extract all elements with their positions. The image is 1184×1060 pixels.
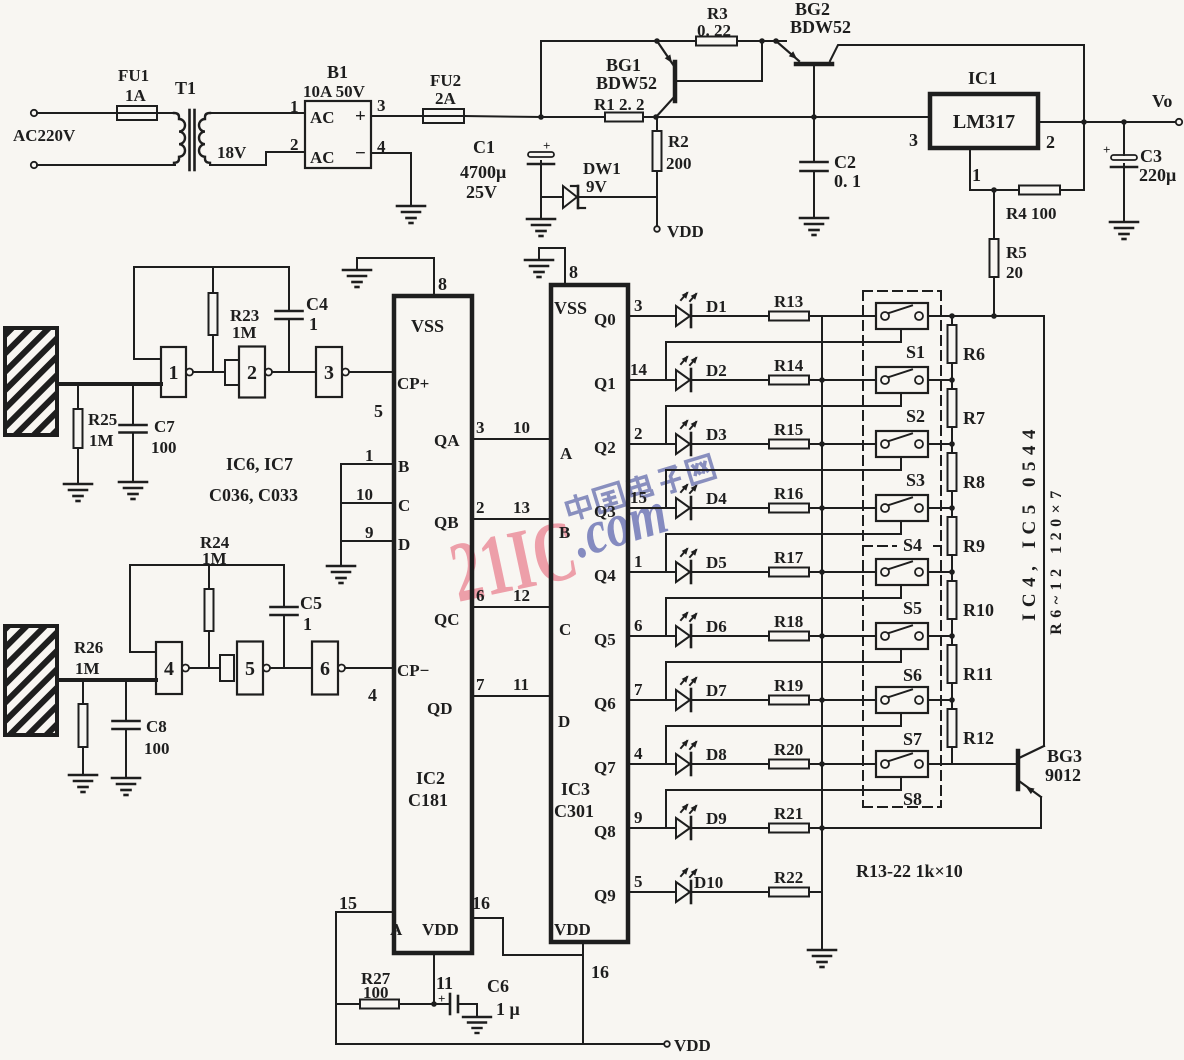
svg-text:R4 100: R4 100 — [1006, 204, 1057, 223]
transformer T1 core — [188, 110, 191, 170]
ground at R26 — [69, 774, 97, 777]
svg-text:R20: R20 — [774, 740, 803, 759]
capacitor C6 — [449, 994, 452, 1014]
LED D2 — [676, 370, 690, 390]
svg-text:Vo: Vo — [1152, 91, 1172, 111]
svg-text:1M: 1M — [89, 431, 114, 450]
wire gate1 to gate2 — [193, 371, 225, 373]
svg-text:1: 1 — [365, 446, 374, 465]
svg-text:R11: R11 — [963, 664, 993, 684]
svg-text:IC3: IC3 — [561, 779, 590, 799]
resistor R17 — [769, 568, 809, 577]
AC input terminal 1 — [31, 110, 37, 116]
resistor R19 — [769, 696, 809, 705]
svg-text:VSS: VSS — [411, 316, 444, 336]
svg-text:0. 1: 0. 1 — [834, 171, 861, 191]
svg-text:25V: 25V — [466, 182, 497, 202]
wire gate5 to gate6 — [270, 667, 312, 669]
dashed outline IC4/IC5 — [863, 291, 941, 807]
wire gate4 to gate5 — [189, 667, 220, 669]
svg-text:R14: R14 — [774, 356, 804, 375]
svg-text:D2: D2 — [706, 361, 727, 380]
inverter gate 1 — [161, 347, 186, 397]
wire R19 to S7 — [809, 699, 876, 701]
ground at IC2 BCD — [327, 565, 355, 568]
svg-text:1: 1 — [972, 165, 981, 185]
resistor R6 — [948, 325, 957, 363]
svg-text:C1: C1 — [473, 137, 495, 157]
node chain row 7 — [949, 697, 955, 703]
wire Q3 to LED D4 — [628, 507, 676, 509]
wire C1 node up to top rail — [540, 41, 542, 117]
svg-text:R22: R22 — [774, 868, 803, 887]
svg-text:Q2: Q2 — [594, 438, 616, 457]
wire FU2 to C1 node — [464, 116, 541, 117]
analog switch S4 — [876, 495, 928, 521]
wire IC2 pin11 — [433, 953, 435, 1004]
resistor R8 — [948, 453, 957, 491]
wire S1 control — [666, 329, 901, 380]
svg-text:5: 5 — [245, 658, 255, 680]
svg-text:C6: C6 — [487, 976, 509, 996]
wire D7 to R19 — [691, 699, 769, 701]
wire R15 to S3 — [809, 443, 876, 445]
wire IC2 C pin — [341, 502, 394, 504]
ground at R25 — [64, 483, 92, 486]
resistor R11 — [948, 645, 957, 683]
svg-text:S4: S4 — [903, 535, 922, 555]
LED D6 — [676, 626, 690, 646]
wire main line C1 to R1 — [541, 116, 605, 118]
node R27-C6 — [431, 1001, 437, 1007]
wire R16 to S4 — [809, 507, 876, 509]
analog switch S5 — [876, 559, 928, 585]
wire D10 to R22 — [691, 891, 769, 893]
svg-text:220μ: 220μ — [1139, 165, 1176, 185]
node BG2 emitter — [773, 38, 779, 44]
node at C1 top — [538, 114, 544, 120]
wire R22 to bus — [809, 891, 822, 893]
svg-text:11: 11 — [436, 973, 453, 993]
wire R2 top — [656, 117, 658, 131]
analog switch S2 — [876, 367, 928, 393]
svg-text:QA: QA — [434, 431, 460, 450]
wire gate6 to IC2 CP- — [345, 667, 394, 669]
node chain row 5 — [949, 569, 955, 575]
svg-text:2: 2 — [247, 362, 257, 384]
svg-text:R10: R10 — [963, 600, 994, 620]
wire S2 control — [666, 393, 901, 444]
svg-text:D1: D1 — [706, 297, 727, 316]
svg-text:QD: QD — [427, 699, 453, 718]
svg-text:R9: R9 — [963, 536, 985, 556]
fuse FU2 — [423, 109, 464, 123]
svg-text:QB: QB — [434, 513, 459, 532]
svg-text:1: 1 — [290, 97, 299, 116]
terminal VDD bottom — [664, 1041, 670, 1047]
svg-text:BG1: BG1 — [606, 55, 641, 75]
svg-text:VSS: VSS — [554, 298, 587, 318]
wire R18 to S6 — [809, 635, 876, 637]
svg-text:IC1: IC1 — [968, 68, 997, 88]
wire R3 to BG2 — [737, 40, 786, 42]
ground at IC2 pin8 — [343, 269, 371, 272]
svg-text:2: 2 — [634, 424, 643, 443]
svg-text:VDD: VDD — [422, 920, 459, 939]
resistor R3 — [696, 37, 737, 46]
fuse FU1 — [117, 106, 157, 120]
svg-text:7: 7 — [634, 680, 643, 699]
LED D10 — [676, 882, 690, 902]
counter IC3 — [551, 285, 628, 942]
inverter gate 2 — [225, 360, 239, 385]
analog switch S1 — [876, 303, 928, 329]
svg-text:A: A — [560, 444, 573, 463]
ground at C7 — [119, 481, 147, 484]
resistor R14 — [769, 376, 809, 385]
analog switch S8 — [876, 751, 928, 777]
wire D4 to R16 — [691, 507, 769, 509]
svg-text:VDD: VDD — [674, 1036, 711, 1055]
wire R5 bottom — [993, 277, 995, 316]
svg-text:R1 2. 2: R1 2. 2 — [594, 95, 645, 114]
inverter gate 6 — [312, 642, 338, 695]
LED D8 — [676, 754, 690, 774]
svg-text:D: D — [558, 712, 570, 731]
wire AC L to FU1 — [37, 112, 117, 114]
resistor R23 — [212, 267, 214, 293]
wire IC2 QB to IC3 — [472, 518, 551, 520]
svg-text:2A: 2A — [435, 89, 457, 108]
wire IC1 output line — [1038, 121, 1176, 123]
node bus row 2 — [819, 377, 825, 383]
svg-text:IC4, IC5 0544: IC4, IC5 0544 — [1019, 423, 1040, 621]
svg-text:10: 10 — [356, 485, 373, 504]
svg-text:BDW52: BDW52 — [596, 73, 657, 93]
svg-text:1M: 1M — [75, 659, 100, 678]
svg-text:AC: AC — [310, 108, 335, 127]
wire Q7 to LED D8 — [628, 763, 676, 765]
svg-text:R15: R15 — [774, 420, 803, 439]
svg-text:1A: 1A — [125, 86, 147, 105]
svg-text:14: 14 — [630, 360, 648, 379]
svg-text:C3: C3 — [1140, 146, 1162, 166]
svg-text:9: 9 — [634, 808, 643, 827]
node bus row 8 — [819, 761, 825, 767]
wire Q8 to LED D9 — [628, 827, 676, 829]
svg-text:IC6, IC7: IC6, IC7 — [226, 454, 293, 474]
svg-text:0. 22: 0. 22 — [697, 21, 731, 40]
svg-text:S2: S2 — [906, 406, 925, 426]
wire gate1 feedback loop — [134, 267, 289, 359]
svg-text:R17: R17 — [774, 548, 804, 567]
wire IC2 QA to IC3 — [472, 438, 551, 440]
svg-text:B1: B1 — [327, 62, 348, 82]
LED D9 — [676, 818, 690, 838]
touch plate 2 — [5, 626, 57, 735]
svg-text:100: 100 — [363, 983, 389, 1002]
wire zener branch — [541, 196, 563, 198]
inverter gate 3 — [316, 347, 342, 397]
svg-text:−: − — [355, 143, 366, 164]
ground at C2 — [800, 217, 828, 220]
svg-text:R25: R25 — [88, 410, 117, 429]
svg-text:Q9: Q9 — [594, 886, 616, 905]
counter IC2 — [394, 296, 472, 953]
node chain top — [949, 313, 955, 319]
wire D5 to R17 — [691, 571, 769, 573]
svg-text:8: 8 — [569, 262, 578, 282]
resistor R7 — [948, 389, 957, 427]
capacitor C4 — [288, 267, 290, 311]
wire R14 to S2 — [809, 379, 876, 381]
svg-text:C8: C8 — [146, 717, 167, 736]
wire S1 output to R5/collector — [928, 315, 1044, 317]
wire S6 output — [928, 635, 952, 637]
resistor R2 — [653, 131, 662, 171]
svg-text:D3: D3 — [706, 425, 727, 444]
svg-text:1M: 1M — [232, 323, 257, 342]
terminal Vo — [1176, 119, 1182, 125]
wire Q5 to LED D6 — [628, 635, 676, 637]
svg-text:1 μ: 1 μ — [496, 999, 520, 1019]
ground at LED bus — [808, 949, 836, 952]
wire C1 stem — [540, 161, 542, 219]
bridge rectifier B1 — [305, 101, 371, 168]
svg-text:1: 1 — [309, 314, 318, 334]
svg-text:+: + — [355, 106, 366, 127]
wire IC3 pin8 to ground — [539, 248, 565, 285]
svg-text:C: C — [559, 620, 571, 639]
svg-text:Q7: Q7 — [594, 758, 616, 777]
wire S1 row to BG3 collector — [1043, 316, 1045, 746]
resistor R16 — [769, 504, 809, 513]
svg-text:IC2: IC2 — [416, 768, 445, 788]
svg-text:R13: R13 — [774, 292, 803, 311]
LED D4 — [676, 498, 690, 518]
svg-text:+: + — [438, 991, 445, 1006]
wire R13 to S1 — [809, 315, 876, 317]
svg-text:Q0: Q0 — [594, 310, 616, 329]
node bus row 9 — [819, 825, 825, 831]
AC input terminal 2 — [31, 162, 37, 168]
svg-text:BG3: BG3 — [1047, 746, 1082, 766]
svg-text:11: 11 — [513, 675, 529, 694]
svg-text:Q6: Q6 — [594, 694, 616, 713]
wire FU1 to T1 primary — [157, 112, 175, 114]
svg-text:Q4: Q4 — [594, 566, 616, 585]
svg-text:9: 9 — [365, 523, 374, 542]
wire zener to R2 bottom — [578, 196, 657, 198]
resistor R18 — [769, 632, 809, 641]
wire top rail to R3 — [541, 40, 696, 42]
svg-text:4700μ: 4700μ — [460, 162, 506, 182]
terminal VDD — [654, 226, 660, 232]
resistor R10 — [948, 581, 957, 619]
svg-text:R2: R2 — [668, 132, 689, 151]
svg-text:1: 1 — [634, 552, 643, 571]
wire S4 control — [666, 521, 901, 572]
resistor R25 — [77, 384, 79, 409]
wire IC2 pin8 to ground — [357, 258, 434, 296]
svg-text:AC: AC — [310, 148, 335, 167]
svg-text:2: 2 — [476, 498, 485, 517]
svg-text:R8: R8 — [963, 472, 985, 492]
svg-text:1: 1 — [169, 362, 179, 384]
analog switch S7 — [876, 687, 928, 713]
svg-text:R21: R21 — [774, 804, 803, 823]
wire gate2 to gate3 — [272, 371, 316, 373]
wire divider chain — [951, 316, 953, 764]
node chain row 2 — [949, 377, 955, 383]
resistor R5 — [990, 239, 999, 277]
node output — [1081, 119, 1087, 125]
resistor R13 — [769, 312, 809, 321]
wire touch plate 2 to gate 4 — [57, 678, 156, 682]
wire D2 to R14 — [691, 379, 769, 381]
svg-text:R6: R6 — [963, 344, 985, 364]
wire IC2 QD to IC3 — [472, 695, 551, 697]
wire B1 pin3 to FU2 — [371, 115, 423, 117]
wire IC3 VDD pin16 — [582, 942, 584, 1044]
wire gate4 feedback loop — [130, 565, 284, 652]
svg-text:R13-22 1k×10: R13-22 1k×10 — [856, 861, 963, 881]
resistor R4 — [1019, 186, 1060, 195]
resistor R15 — [769, 440, 809, 449]
svg-text:FU2: FU2 — [430, 71, 461, 90]
analog switch S3 — [876, 431, 928, 457]
svg-text:5: 5 — [374, 401, 383, 421]
zener diode DW1 — [563, 186, 577, 208]
svg-text:Q5: Q5 — [594, 630, 616, 649]
node bus row 4 — [819, 505, 825, 511]
wire D9 to R21 — [691, 827, 769, 829]
LED D1 — [676, 306, 690, 326]
svg-text:Q8: Q8 — [594, 822, 616, 841]
wire R20 to S8 — [809, 763, 876, 765]
svg-text:2: 2 — [1046, 132, 1055, 152]
node R5 top — [991, 187, 997, 193]
ground at IC3 pin8 — [525, 259, 553, 262]
ground at C8 — [112, 777, 140, 780]
svg-text:D4: D4 — [706, 489, 727, 508]
capacitor C7 — [132, 384, 134, 425]
svg-text:10A 50V: 10A 50V — [303, 82, 366, 101]
svg-text:R12: R12 — [963, 728, 994, 748]
ground at C6 — [476, 1004, 478, 1017]
transistor BG2 — [796, 62, 832, 67]
wire S6 control — [666, 649, 901, 700]
wire R4 to output node — [1060, 122, 1084, 190]
svg-text:VDD: VDD — [667, 222, 704, 241]
node R1-R2-BG1 — [653, 114, 659, 120]
resistor R9 — [948, 517, 957, 555]
svg-text:CP+: CP+ — [397, 374, 429, 393]
svg-text:D: D — [398, 535, 410, 554]
node bus row 7 — [819, 697, 825, 703]
svg-text:R7: R7 — [963, 408, 985, 428]
wire S5 output — [928, 571, 952, 573]
svg-text:+: + — [1103, 142, 1110, 157]
wire S8 output to BG3 base — [928, 763, 1016, 765]
svg-text:16: 16 — [472, 893, 490, 913]
wire AC N to T1 primary — [37, 164, 175, 166]
ground at B1 pin4 — [397, 205, 425, 208]
wire IC2 pin15 — [336, 912, 394, 1044]
wire T1 secondary bottom to B1 pin2 — [210, 152, 305, 165]
node C3 tap — [1121, 119, 1127, 125]
svg-text:4: 4 — [164, 658, 174, 680]
node R5 bottom — [991, 313, 997, 319]
svg-text:C181: C181 — [408, 790, 448, 810]
svg-text:Q3: Q3 — [594, 502, 616, 521]
svg-text:B: B — [559, 523, 570, 542]
transformer T1 secondary winding — [199, 113, 210, 163]
svg-text:15: 15 — [339, 893, 357, 913]
regulator IC1 LM317 — [930, 94, 1038, 148]
svg-text:CP−: CP− — [397, 661, 429, 680]
wire D1 to R13 — [691, 315, 769, 317]
svg-text:S1: S1 — [906, 342, 925, 362]
wire touch plate 1 to gate 1 — [57, 382, 161, 386]
wire S3 control — [666, 457, 901, 508]
svg-text:QC: QC — [434, 610, 460, 629]
svg-text:R19: R19 — [774, 676, 803, 695]
wire LED bus — [821, 316, 823, 950]
wire Q2 to LED D3 — [628, 443, 676, 445]
svg-text:R5: R5 — [1006, 243, 1027, 262]
svg-text:D9: D9 — [706, 809, 727, 828]
svg-text:13: 13 — [513, 498, 530, 517]
svg-text:4: 4 — [634, 744, 643, 763]
svg-text:+: + — [543, 138, 550, 153]
svg-text:1: 1 — [303, 614, 312, 634]
wire T1 secondary top to B1 pin1 — [210, 112, 305, 114]
svg-text:AC220V: AC220V — [13, 126, 76, 145]
svg-text:R18: R18 — [774, 612, 803, 631]
wire IC2 pin16 step — [472, 918, 583, 955]
capacitor C2 — [801, 161, 828, 164]
svg-text:D6: D6 — [706, 617, 727, 636]
svg-text:S6: S6 — [903, 665, 922, 685]
LED D5 — [676, 562, 690, 582]
ground at C3 — [1110, 221, 1138, 224]
svg-text:A: A — [390, 920, 403, 939]
capacitor C5 — [283, 565, 285, 607]
svg-text:DW1: DW1 — [583, 159, 621, 178]
svg-text:2: 2 — [290, 135, 299, 154]
wire S2 output — [928, 379, 952, 381]
wire D6 to R18 — [691, 635, 769, 637]
node chain row 3 — [949, 441, 955, 447]
wire R5 top — [993, 190, 995, 239]
node R3-BG1 base — [759, 38, 765, 44]
wire R21 to BG3 emitter — [809, 827, 1041, 829]
touch plate 1 — [5, 328, 57, 435]
resistor R26 — [82, 680, 84, 704]
svg-text:3: 3 — [324, 362, 334, 384]
LED D7 — [676, 690, 690, 710]
wire IC2 BCD bracket — [340, 464, 342, 566]
svg-text:9012: 9012 — [1045, 765, 1081, 785]
svg-text:C5: C5 — [300, 593, 322, 613]
wire Q9 to LED D10 — [628, 891, 676, 893]
svg-text:6: 6 — [476, 586, 485, 605]
svg-text:C4: C4 — [306, 294, 328, 314]
svg-text:100: 100 — [144, 739, 170, 758]
svg-text:7: 7 — [476, 675, 485, 694]
inverter gate 5 — [220, 655, 234, 681]
